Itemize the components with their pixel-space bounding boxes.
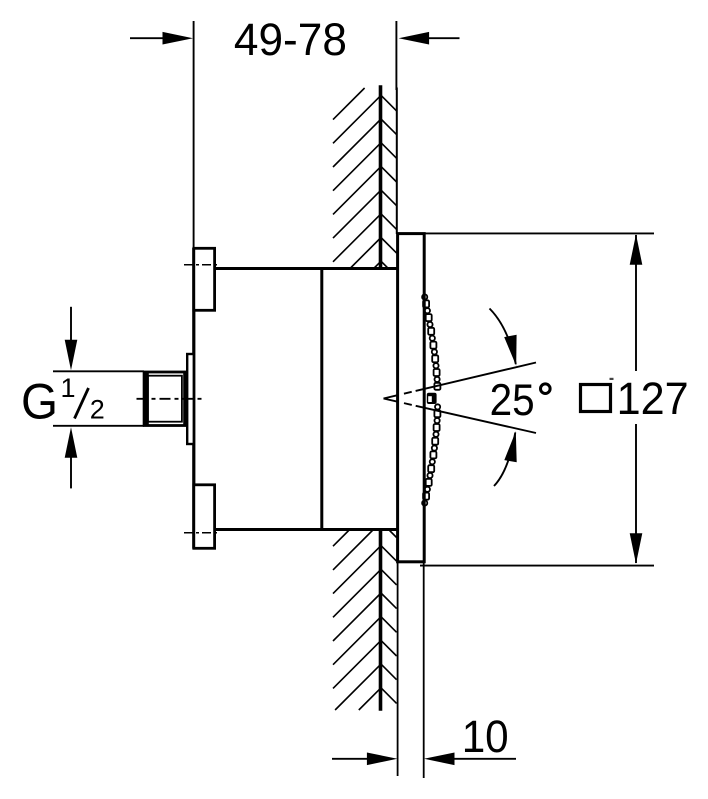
G1/2 thread outer bbox=[144, 372, 184, 426]
square symbol bbox=[581, 385, 611, 412]
svg-text:G: G bbox=[21, 373, 58, 429]
svg-text:49-78: 49-78 bbox=[234, 14, 347, 65]
body step line bbox=[320, 267, 323, 531]
angle arc lower with arrow bbox=[494, 433, 515, 487]
svg-text:127: 127 bbox=[617, 373, 689, 424]
dimension 49-78 extension line right bbox=[395, 21, 397, 90]
fraction slash bbox=[75, 388, 89, 419]
mounting bracket vertical plate bbox=[192, 248, 195, 549]
svg-text:1: 1 bbox=[60, 373, 75, 403]
square-127 extension line bottom bbox=[420, 565, 654, 567]
flange ridge bbox=[187, 354, 194, 444]
G1/2 extension line top bbox=[53, 370, 144, 372]
main centerline bbox=[137, 398, 205, 400]
plaster face line (lower) / extension for 10 bbox=[397, 562, 399, 776]
wall face thick line (lower) bbox=[379, 529, 383, 711]
dimension 10 dimension line left with arrow bbox=[332, 758, 369, 760]
dimension 49-78 extension line left bbox=[193, 21, 195, 249]
G1/2 dimension line bottom with arrow bbox=[70, 455, 72, 488]
svg-text:10: 10 bbox=[462, 711, 509, 762]
G1/2 dimension line top with arrow bbox=[70, 307, 72, 342]
central nozzle bbox=[427, 393, 437, 404]
dimension 49-78 dimension line right with arrow bbox=[428, 37, 460, 39]
mounting tab top bbox=[194, 248, 215, 310]
white mask behind square-127 label bbox=[571, 371, 701, 424]
degree symbol bbox=[541, 384, 551, 394]
square-127 arrowhead bottom bbox=[630, 533, 643, 564]
square-127 extension line top bbox=[423, 232, 654, 234]
G1/2 thread inner bbox=[148, 376, 182, 422]
mounting tab bottom bbox=[194, 485, 215, 549]
wall hatching (masonry) bbox=[333, 88, 381, 710]
spray face nozzle chain bbox=[422, 294, 440, 505]
shower body top edge bbox=[214, 267, 397, 270]
face plate bbox=[398, 234, 425, 562]
shower body bottom edge bbox=[214, 528, 397, 531]
screw centerline bottom bbox=[184, 532, 218, 534]
dimension 10 dimension line right with arrow bbox=[452, 758, 516, 760]
screw centerline top bbox=[184, 264, 218, 266]
spray fan line lower bbox=[384, 399, 537, 434]
svg-text:25: 25 bbox=[490, 376, 535, 425]
dimension 49-78 dimension line left with arrow bbox=[130, 37, 165, 39]
wall hatching (plaster layer) bbox=[382, 96, 397, 704]
spray fan line upper bbox=[384, 363, 537, 399]
angle arc upper with arrow bbox=[490, 309, 516, 365]
G1/2 thread left edge (thick) bbox=[143, 372, 149, 426]
svg-text:2: 2 bbox=[90, 395, 105, 425]
square-127 arrowhead top bbox=[630, 234, 643, 265]
plaster face line (upper) bbox=[396, 88, 398, 235]
dimension 10 extension line right bbox=[423, 563, 425, 778]
speck artifact bbox=[610, 378, 614, 380]
G1/2 extension line bottom bbox=[53, 425, 144, 427]
square-127 dimension line bbox=[635, 235, 637, 563]
wall face thick line (upper) bbox=[379, 85, 383, 269]
